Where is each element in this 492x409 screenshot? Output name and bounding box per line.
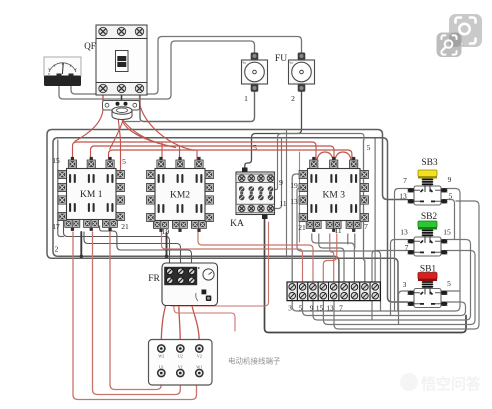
wire [275,134,365,190]
wire [169,222,269,306]
svg-text:U2: U2 [178,354,183,359]
wire [140,91,255,122]
wire [448,290,461,292]
svg-text:7: 7 [364,222,368,231]
svg-text:V2: V2 [197,354,202,359]
wire [174,300,235,331]
wire [102,99,104,101]
wire [347,234,349,244]
svg-text:U1: U1 [159,365,164,370]
svg-text:13: 13 [326,305,334,313]
wire phase C [109,150,352,168]
wire [399,291,408,325]
svg-text:13: 13 [400,228,408,237]
ammeter PA [44,57,81,86]
CT current transformer [112,107,132,120]
wire [59,41,255,99]
wire CT center [121,95,123,116]
wire CT to KM1 side terminal [118,106,121,170]
wire [292,174,303,282]
wire [330,234,334,282]
svg-text:电动机接线端子: 电动机接线端子 [228,356,281,366]
svg-text:FR: FR [148,274,160,284]
wire [53,138,408,302]
wire [374,138,376,282]
svg-text:SB3: SB3 [421,158,438,168]
svg-text:9: 9 [310,305,314,313]
wire [100,226,192,266]
CT terminal plate [103,101,140,111]
svg-text:5: 5 [253,143,257,152]
wire phase A [73,142,317,168]
svg-text:V1: V1 [178,365,183,370]
wire [102,92,104,101]
svg-text:W2: W2 [158,354,164,359]
wire CT diagonal 3 [122,116,177,148]
wire [323,234,337,282]
svg-text:11: 11 [279,199,286,208]
wire [372,251,408,321]
svg-text:2: 2 [55,245,59,254]
wire [196,150,198,159]
svg-text:21: 21 [121,222,129,231]
wire CT diagonal 5 [140,100,195,151]
wire FR to motor V2 [191,287,199,344]
wire [286,130,288,259]
wire [80,232,82,256]
svg-text:FU: FU [275,54,287,64]
wire [58,140,64,237]
svg-text:13: 13 [290,197,298,206]
svg-text:5: 5 [299,305,303,313]
wire [364,140,365,282]
thermal relay FR [162,263,218,306]
wire FR to motor U2 [179,287,181,344]
fuse FU2 [289,53,315,92]
svg-text:1: 1 [244,94,248,103]
svg-text:15: 15 [52,156,60,165]
wire [245,91,302,168]
terminal strip XT [287,282,380,301]
svg-text:3: 3 [403,280,407,289]
wire [166,233,168,256]
wire [299,152,301,242]
svg-text:5: 5 [449,192,453,201]
svg-text:悟空问答: 悟空问答 [421,375,482,393]
svg-text:19: 19 [290,181,298,190]
wire [275,138,282,209]
wire [395,189,408,312]
wire [313,240,471,321]
svg-text:7: 7 [339,305,343,313]
motor terminal box [149,340,213,386]
wire [71,37,302,95]
wire [303,301,466,316]
wire [73,232,197,400]
svg-text:21: 21 [298,223,306,232]
push button SB2 [408,221,448,256]
push button SB1 [408,273,448,308]
breaker QF [96,25,147,95]
svg-text:KA: KA [230,219,244,229]
watermark [400,373,482,393]
svg-text:17: 17 [52,222,60,231]
svg-text:13: 13 [399,192,407,201]
wire [323,251,475,325]
wire [265,219,467,333]
wire CT diagonal 4 [110,106,126,150]
wire [179,146,181,159]
svg-text:3: 3 [288,305,292,313]
svg-text:KM 3: KM 3 [323,191,346,201]
contactor KM1 [58,157,124,231]
svg-text:W1: W1 [196,365,202,370]
wire [84,232,181,266]
wire [354,234,356,248]
contactor KM2 [147,157,214,232]
svg-text:15: 15 [443,228,451,237]
wire [391,240,408,316]
wire CT diagonal 1 [75,108,104,142]
wire [161,142,163,159]
wire [122,116,140,122]
wire [64,221,170,266]
wire [162,232,303,282]
push button SB3 [408,170,448,205]
svg-text:2: 2 [291,94,295,103]
svg-text:KM 1: KM 1 [80,190,103,200]
wire [110,232,161,390]
svg-text:KM2: KM2 [170,191,190,201]
svg-text:15: 15 [316,305,324,313]
icon image-search large [449,14,482,47]
svg-text:9: 9 [279,178,283,187]
svg-text:7: 7 [405,243,409,252]
fuse FU1 [242,53,268,92]
wire [319,234,344,282]
wire [312,234,355,282]
wire CT diagonal 2 [118,106,160,144]
wire FR to motor W2 [161,287,169,344]
wire [334,201,479,329]
icon image-search small [437,33,462,58]
svg-text:QF: QF [84,41,96,51]
wire [93,232,181,395]
relay KA [236,168,275,220]
wire FR internal [169,299,205,301]
wire [292,189,460,312]
svg-text:19: 19 [162,227,170,236]
wire [121,92,123,102]
svg-text:5: 5 [122,157,126,166]
svg-text:11: 11 [334,226,341,235]
wire KM3 jumper arcs [316,152,352,168]
wire [47,130,408,312]
wire phase B [91,146,335,168]
svg-text:9: 9 [448,175,452,184]
wire [448,200,455,240]
contactor KM3 [299,157,368,232]
svg-text:7: 7 [403,176,407,185]
wire [198,232,313,282]
svg-text:SB2: SB2 [421,212,438,222]
wire [297,188,381,311]
node junctions [80,255,83,258]
svg-text:5: 5 [367,143,371,152]
svg-text:5: 5 [447,279,451,288]
svg-text:0: 0 [48,72,50,76]
wire [139,92,141,100]
